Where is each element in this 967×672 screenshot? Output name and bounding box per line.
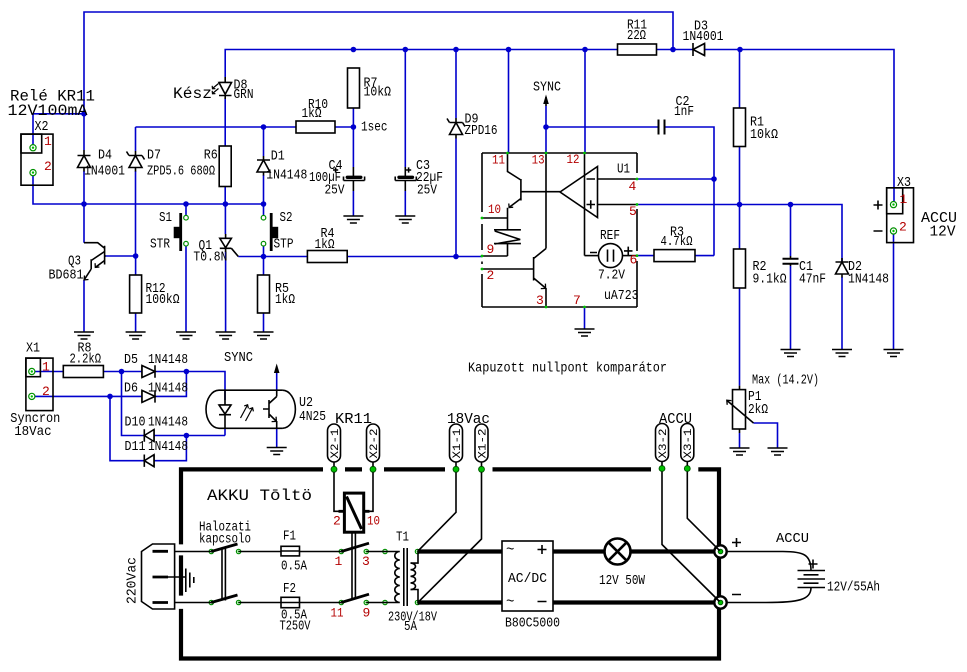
svg-text:18Vac: 18Vac xyxy=(447,411,490,428)
svg-text:5A: 5A xyxy=(404,619,417,635)
svg-text:1N4148: 1N4148 xyxy=(148,415,188,431)
svg-text:X3-2: X3-2 xyxy=(658,429,670,459)
svg-text:D10: D10 xyxy=(125,415,146,431)
svg-text:X2-2: X2-2 xyxy=(369,429,381,459)
svg-text:4N25: 4N25 xyxy=(299,409,326,425)
svg-text:1N4001: 1N4001 xyxy=(683,29,724,45)
svg-text:7: 7 xyxy=(573,293,581,308)
svg-text:4: 4 xyxy=(629,179,637,194)
svg-text:12V/55Ah: 12V/55Ah xyxy=(827,580,880,596)
svg-text:10: 10 xyxy=(488,202,501,217)
svg-text:R6: R6 xyxy=(204,148,218,164)
svg-text:KR11: KR11 xyxy=(335,411,372,428)
svg-text:uA723: uA723 xyxy=(604,288,639,304)
svg-text:kapcsolo: kapcsolo xyxy=(199,532,251,548)
svg-text:1kΩ: 1kΩ xyxy=(302,106,322,122)
svg-text:9: 9 xyxy=(363,606,371,621)
svg-text:2: 2 xyxy=(899,220,907,235)
svg-text:22Ω: 22Ω xyxy=(627,28,646,44)
svg-text:13: 13 xyxy=(532,153,545,168)
svg-text:D6: D6 xyxy=(124,381,138,397)
svg-text:Kész: Kész xyxy=(173,85,212,103)
svg-text:25V: 25V xyxy=(325,183,345,199)
svg-text:U1: U1 xyxy=(617,161,630,177)
svg-text:STR: STR xyxy=(150,237,170,253)
svg-text:11: 11 xyxy=(331,606,344,621)
svg-text:1: 1 xyxy=(900,192,908,207)
svg-text:2: 2 xyxy=(44,159,52,174)
svg-text:7.2V: 7.2V xyxy=(598,268,625,284)
svg-text:1N4148: 1N4148 xyxy=(148,381,188,397)
svg-text:T250V: T250V xyxy=(280,619,311,635)
svg-text:25V: 25V xyxy=(417,183,437,199)
svg-text:1N4001: 1N4001 xyxy=(84,164,125,180)
svg-text:1nF: 1nF xyxy=(674,104,694,120)
svg-text:ZPD16: ZPD16 xyxy=(465,123,498,139)
svg-text:10kΩ: 10kΩ xyxy=(364,85,392,101)
svg-text:1N4148: 1N4148 xyxy=(848,272,889,288)
svg-text:5: 5 xyxy=(629,204,637,219)
svg-text:10: 10 xyxy=(367,514,380,529)
svg-text:B80C5000: B80C5000 xyxy=(505,616,560,632)
svg-text:~: ~ xyxy=(506,543,514,559)
svg-text:AC/DC: AC/DC xyxy=(508,571,547,587)
svg-text:2: 2 xyxy=(42,384,50,399)
svg-text:REF: REF xyxy=(600,228,620,244)
svg-text:12: 12 xyxy=(567,152,580,167)
svg-text:D5: D5 xyxy=(124,352,138,368)
svg-text:SYNC: SYNC xyxy=(533,80,561,96)
svg-text:0.5A: 0.5A xyxy=(281,559,307,575)
svg-text:S2: S2 xyxy=(280,210,293,226)
svg-text:2.2kΩ: 2.2kΩ xyxy=(70,352,102,368)
svg-text:1sec: 1sec xyxy=(361,120,388,136)
svg-text:10kΩ: 10kΩ xyxy=(750,127,778,143)
svg-text:X2-1: X2-1 xyxy=(330,428,342,458)
svg-text:SYNC: SYNC xyxy=(224,350,253,366)
svg-text:GRN: GRN xyxy=(234,87,254,103)
svg-text:6: 6 xyxy=(630,253,638,268)
svg-text:F2: F2 xyxy=(283,581,296,597)
svg-text:ACCU: ACCU xyxy=(659,411,692,428)
svg-text:ACCU: ACCU xyxy=(776,531,809,547)
svg-text:11: 11 xyxy=(492,153,505,168)
svg-text:1N4148: 1N4148 xyxy=(148,352,188,368)
svg-text:T0.8N: T0.8N xyxy=(193,250,227,266)
svg-text:1kΩ: 1kΩ xyxy=(315,237,335,253)
svg-text:220Vac: 220Vac xyxy=(125,557,141,604)
svg-text:F1: F1 xyxy=(283,529,296,545)
svg-text:47nF: 47nF xyxy=(799,272,826,288)
svg-text:ZPD5.6 680Ω: ZPD5.6 680Ω xyxy=(147,164,215,180)
svg-text:12V 50W: 12V 50W xyxy=(599,573,645,589)
svg-text:Max (14.2V): Max (14.2V) xyxy=(752,373,819,389)
svg-text:X3-1: X3-1 xyxy=(683,428,695,458)
svg-text:X1-2: X1-2 xyxy=(477,429,489,459)
svg-text:2kΩ: 2kΩ xyxy=(748,402,768,418)
svg-text:4.7kΩ: 4.7kΩ xyxy=(661,234,693,250)
svg-text:18Vac: 18Vac xyxy=(14,424,52,440)
svg-text:X3: X3 xyxy=(897,175,911,191)
svg-text:1: 1 xyxy=(42,360,50,375)
svg-text:1: 1 xyxy=(335,554,343,569)
svg-text:AKKU Tōltö: AKKU Tōltö xyxy=(207,487,312,505)
svg-text:12V: 12V xyxy=(930,224,956,241)
svg-text:X1-1: X1-1 xyxy=(452,428,464,458)
svg-text:12V100mA: 12V100mA xyxy=(8,102,89,120)
svg-text:2: 2 xyxy=(333,514,341,529)
svg-text:100kΩ: 100kΩ xyxy=(146,292,180,308)
svg-text:3: 3 xyxy=(536,293,544,308)
svg-text:9.1kΩ: 9.1kΩ xyxy=(753,272,787,288)
svg-text:D11: D11 xyxy=(125,439,146,455)
svg-text:2: 2 xyxy=(487,268,495,283)
svg-text:D7: D7 xyxy=(147,148,161,164)
svg-text:D4: D4 xyxy=(98,148,112,164)
svg-text:1N4148: 1N4148 xyxy=(148,439,188,455)
svg-text:D1: D1 xyxy=(271,149,285,165)
svg-text:S1: S1 xyxy=(159,210,172,226)
svg-text:X1: X1 xyxy=(26,341,40,357)
svg-text:Kapuzott nullpont komparátor: Kapuzott nullpont komparátor xyxy=(468,361,667,377)
svg-text:T1: T1 xyxy=(396,530,409,546)
svg-text:STP: STP xyxy=(274,237,294,253)
svg-text:1: 1 xyxy=(44,134,52,149)
svg-text:BD681: BD681 xyxy=(49,268,84,284)
svg-text:X2: X2 xyxy=(35,119,49,135)
svg-text:1N4148: 1N4148 xyxy=(266,168,307,184)
svg-text:~: ~ xyxy=(506,595,514,611)
svg-text:9: 9 xyxy=(487,242,495,257)
svg-text:3: 3 xyxy=(362,554,370,569)
svg-text:1kΩ: 1kΩ xyxy=(275,292,295,308)
